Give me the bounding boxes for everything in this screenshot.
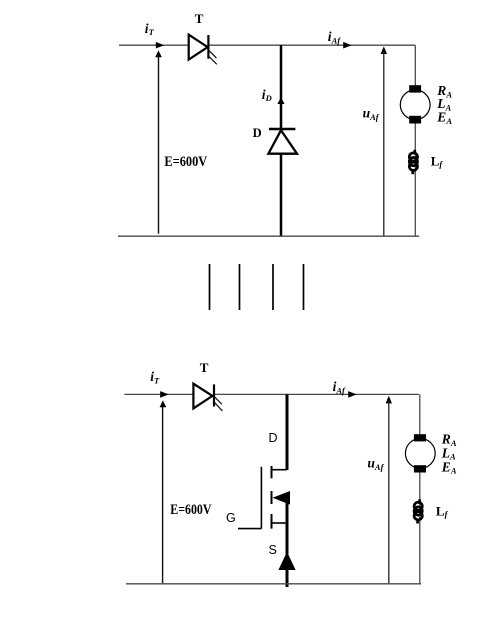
arrow iD current up (circuit 1) <box>277 97 284 104</box>
wire bottom (circuit 1) <box>118 235 419 237</box>
separator line 3 <box>272 264 274 310</box>
diode D cathode bar (circuit 1) <box>269 128 295 131</box>
arrow iT current (circuit 1) <box>156 42 164 49</box>
thyristor T gate slash lower (circuit 1) <box>209 56 217 64</box>
separator line 2 <box>239 264 241 310</box>
MOSFET drain lead thick (circuit 2) <box>286 394 289 470</box>
svg-text:S: S <box>269 543 277 557</box>
wire uAf measurement line (circuit 2) <box>388 402 390 584</box>
thyristor T triangle (circuit 2) <box>193 384 212 409</box>
arrow iT current (circuit 2) <box>160 391 168 398</box>
svg-text:T: T <box>200 360 209 375</box>
wire top-right segment (circuit 2) <box>214 393 419 395</box>
thyristor T gate slash upper (circuit 1) <box>209 50 217 58</box>
MOSFET drain horizontal (circuit 2) <box>272 469 288 471</box>
wire uAf measurement line (circuit 1) <box>383 52 385 236</box>
arrow iAf current (circuit 1) <box>343 42 351 49</box>
motor brush top (circuit 2) <box>414 434 426 441</box>
MOSFET channel tick middle (circuit 2) <box>271 491 273 504</box>
MOSFET channel tick top (circuit 2) <box>271 466 273 478</box>
svg-text:G: G <box>226 511 236 525</box>
thyristor T gate slash upper (circuit 2) <box>215 397 222 404</box>
wire top-left segment (circuit 1) <box>119 44 189 46</box>
inductor Lf coil (circuit 2) <box>414 499 422 523</box>
MOSFET source horizontal (circuit 2) <box>272 522 288 524</box>
MOSFET source lead thick (circuit 2) <box>286 495 289 587</box>
MOSFET channel tick bottom (circuit 2) <box>271 514 273 529</box>
wire top-right segment (circuit 1) <box>208 44 415 46</box>
arrow iAf current (circuit 2) <box>348 391 356 398</box>
separator line 4 <box>303 264 305 310</box>
thyristor T cathode bar (circuit 1) <box>207 35 209 59</box>
wire diode branch upper (circuit 1) <box>280 45 283 129</box>
motor M armature circle (circuit 1) <box>400 90 430 120</box>
wire motor branch (circuit 2) <box>419 394 421 583</box>
thyristor T triangle (circuit 1) <box>189 35 208 60</box>
wire motor branch (circuit 1) <box>414 45 416 236</box>
wire diode branch lower (circuit 1) <box>280 154 283 236</box>
MOSFET gate vertical (circuit 2) <box>260 467 262 529</box>
separator line 1 <box>209 264 211 310</box>
MOSFET gate lead horizontal (circuit 2) <box>238 528 261 530</box>
svg-text:E=600V: E=600V <box>164 154 207 170</box>
wire top-left segment (circuit 2) <box>124 393 193 395</box>
wire source branch E (circuit 2) <box>162 404 164 583</box>
motor brush top (circuit 1) <box>409 85 421 92</box>
wire bottom (circuit 2) <box>126 583 421 585</box>
MOSFET body arrow (circuit 2) <box>273 491 291 505</box>
arrow uAf measurement up (circuit 2) <box>386 396 392 404</box>
svg-text:E=600V: E=600V <box>170 502 211 518</box>
motor brush bottom (circuit 1) <box>409 116 421 124</box>
thyristor T cathode bar (circuit 2) <box>213 384 215 406</box>
arrow source current up (circuit 1) <box>155 50 162 57</box>
arrow source current big (circuit 2) <box>278 552 295 570</box>
svg-text:D: D <box>269 431 278 445</box>
diode D triangle (circuit 1) <box>268 130 297 154</box>
arrow uAf measurement up (circuit 1) <box>381 46 387 54</box>
wire source branch E (circuit 1) <box>158 54 160 234</box>
inductor Lf coil (circuit 1) <box>409 150 417 174</box>
motor brush bottom (circuit 2) <box>414 465 426 472</box>
arrow source current up (circuit 2) <box>160 400 167 407</box>
thyristor T gate slash lower (circuit 2) <box>215 403 223 411</box>
svg-text:T: T <box>195 11 204 26</box>
svg-text:D: D <box>253 126 262 140</box>
motor M armature circle (circuit 2) <box>405 439 435 469</box>
